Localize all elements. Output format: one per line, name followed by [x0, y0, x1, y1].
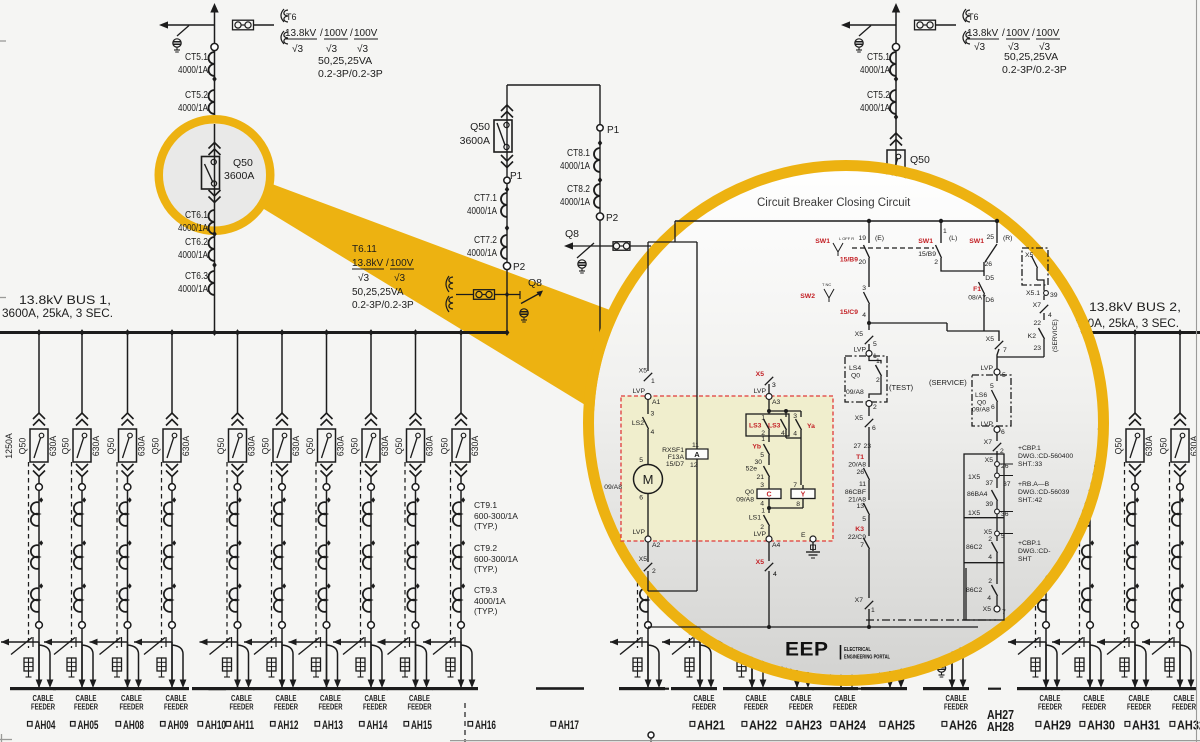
svg-text:50,25,25VA: 50,25,25VA [1004, 51, 1058, 63]
svg-text:C: C [766, 492, 771, 499]
svg-text:(TEST): (TEST) [889, 383, 914, 392]
svg-text:A3: A3 [772, 399, 781, 406]
current transformer CT7.2 [501, 235, 507, 259]
current transformer cluster 1 [39, 497, 43, 503]
junction [598, 177, 602, 183]
earthing switch [134, 641, 172, 643]
svg-text:FEEDER: FEEDER [120, 703, 144, 712]
svg-text:AH30: AH30 [1087, 719, 1115, 733]
current transformer cluster 2 [1135, 540, 1139, 546]
negative rail wire [648, 626, 978, 628]
withdrawable contact arrows (upper) [410, 413, 422, 419]
bus junction [505, 329, 510, 336]
svg-text:FEEDER: FEEDER [31, 703, 55, 712]
withdrawable contact arrows (lower) [455, 464, 467, 470]
withdrawable contact arrows (lower) [76, 464, 88, 470]
junction [995, 219, 999, 223]
isolating contact [36, 622, 43, 629]
current transformer CT8.2 [594, 184, 600, 208]
cable conductor 2 [890, 645, 901, 680]
svg-text:SHT: SHT [1018, 556, 1032, 563]
cable conductor 1 [1179, 642, 1181, 680]
contact LS3 (second) [785, 411, 787, 417]
svg-text:/: / [1002, 28, 1005, 39]
fuse link T6.11 [474, 290, 495, 300]
current transformer cluster 2 [128, 540, 132, 546]
svg-text:L OFF R: L OFF R [839, 236, 854, 241]
svg-text:630A: 630A [137, 436, 147, 457]
cable conductor 2 [952, 645, 963, 680]
isolating contact [749, 484, 756, 491]
feeder wire [699, 477, 701, 688]
circuit breaker Q50 AH04 [30, 429, 48, 462]
earthing switch [1142, 641, 1180, 643]
sheet border right [1196, 0, 1198, 742]
isolating contact [279, 622, 286, 629]
cable termination bar [619, 687, 665, 690]
cable conductor 1 [81, 642, 83, 680]
svg-text:P1: P1 [510, 171, 523, 182]
earthing switch [90, 641, 128, 643]
disconnector with earthing (left incomer) [168, 24, 215, 26]
circuit breaker Q50 AH13 [318, 429, 336, 462]
ground reference mark [648, 732, 654, 738]
truck position dashed wire [226, 462, 228, 648]
svg-text:D5: D5 [985, 275, 994, 282]
svg-text:CT5.2: CT5.2 [867, 89, 890, 101]
truck position dashed wire [830, 462, 832, 648]
svg-text:23: 23 [1033, 345, 1041, 352]
feeder AH12 [280, 329, 285, 336]
current transformer cluster 2 [890, 540, 894, 546]
current transformer cluster 2 [371, 540, 375, 546]
svg-text:13.8kV: 13.8kV [352, 258, 383, 269]
magnifier beam wedge [259, 184, 650, 425]
earthing switch [852, 641, 890, 643]
current transformer cluster 1 [1090, 497, 1094, 503]
circuit breaker Q50 AH25 [881, 429, 899, 462]
current transformer cluster 1 [841, 497, 845, 503]
feeder AH32 [1178, 329, 1183, 336]
cable conductor 2 [238, 645, 249, 680]
interlock branch X5.1/K2 [1022, 248, 1048, 285]
feeder column [647, 400, 649, 414]
svg-text:86C2: 86C2 [966, 587, 982, 594]
feeder name AH21 [690, 722, 695, 727]
anti-pump wire to Ya branch [769, 410, 801, 412]
svg-text:AH11: AH11 [233, 718, 254, 732]
svg-text:5: 5 [990, 383, 994, 390]
svg-text:X7: X7 [855, 597, 864, 604]
feeder name AH24 [831, 722, 836, 727]
junction [505, 186, 509, 192]
svg-text:4: 4 [1048, 312, 1052, 319]
truck position dashed wire [315, 462, 317, 648]
feeder wire [38, 477, 40, 688]
junction [894, 76, 898, 82]
isolating contact [838, 622, 845, 629]
cable conductor 1 [38, 642, 40, 680]
svg-text:37: 37 [985, 480, 993, 487]
svg-text:7: 7 [860, 542, 864, 549]
surge arrester [356, 658, 365, 671]
feeder wire [1179, 477, 1181, 688]
svg-text:Q50: Q50 [910, 154, 930, 166]
withdrawable contact arrows (lower) [791, 464, 803, 470]
current transformer CT5.1 [890, 52, 896, 76]
isolating contact [412, 622, 419, 629]
svg-text:630A: 630A [380, 436, 390, 457]
withdrawable contact arrows (upper) [884, 413, 896, 419]
circuit breaker Q50 AH15 [407, 429, 425, 462]
truck position dashed wire [360, 462, 362, 648]
feeder AH11 [235, 329, 240, 336]
svg-text:Q0: Q0 [745, 489, 754, 496]
svg-text:Q50: Q50 [1114, 438, 1124, 455]
truck position dashed wire [161, 462, 163, 648]
junction [212, 76, 216, 82]
svg-text:8: 8 [796, 501, 800, 508]
isolating contact [1043, 622, 1050, 629]
cable conductor 1 [326, 642, 328, 680]
fuse link (left incomer) [233, 20, 254, 30]
incoming feeder arrow (right) [892, 3, 900, 13]
isolating contact [1177, 484, 1184, 491]
svg-text:X5: X5 [756, 371, 765, 378]
circuit breaker Q50 AH22 [743, 429, 761, 462]
svg-text:CT5.1: CT5.1 [867, 51, 890, 63]
svg-text:P2: P2 [606, 213, 619, 224]
surge arrester [1120, 658, 1129, 671]
svg-text:AH25: AH25 [887, 719, 915, 733]
bar joint dashes [858, 688, 869, 690]
svg-text:1: 1 [876, 358, 880, 365]
svg-text:FEEDER: FEEDER [944, 703, 968, 712]
svg-text:+CBP.1: +CBP.1 [1018, 540, 1041, 547]
auxiliary contact box LS3/LS3 [746, 414, 789, 436]
svg-text:AH04: AH04 [35, 718, 56, 732]
earthing switch [714, 641, 752, 643]
feeder wire [951, 477, 953, 688]
svg-text:630A: 630A [91, 436, 101, 457]
cable conductor 2 [1046, 645, 1057, 680]
cable conductor 1 [699, 642, 701, 680]
isolating contact [79, 622, 86, 629]
wire K2 to LVP5 [997, 356, 1044, 358]
svg-text:12: 12 [690, 462, 698, 469]
current transformer cluster 2 [238, 540, 242, 546]
svg-text:AH26: AH26 [949, 719, 977, 733]
truck position dashed wire [689, 462, 691, 648]
feeder AH24 [840, 400, 842, 414]
junction [598, 140, 602, 146]
svg-text:SHT.:33: SHT.:33 [1018, 461, 1042, 468]
feeder AH29 [1045, 400, 1047, 414]
feeder AH08 [125, 329, 130, 336]
svg-text:AH16: AH16 [475, 718, 496, 732]
svg-text:X5: X5 [756, 559, 765, 566]
svg-text:19: 19 [858, 235, 866, 242]
connector pin X5:6 [868, 407, 870, 417]
withdrawable contact arrows (lower) [166, 464, 178, 470]
svg-text:FEEDER: FEEDER [363, 703, 387, 712]
svg-text:CT5.1: CT5.1 [185, 51, 208, 63]
current transformer cluster 3 [841, 583, 845, 589]
svg-text:1: 1 [761, 508, 765, 515]
cable termination bar [53, 687, 99, 690]
current transformer cluster 2 [952, 540, 956, 546]
current transformer cluster 2 [648, 540, 652, 546]
current transformer cluster 3 [700, 583, 704, 589]
svg-text:100V: 100V [324, 28, 348, 39]
junction [939, 219, 943, 223]
svg-text:FEEDER: FEEDER [1082, 703, 1106, 712]
wire stubs to annotations [999, 463, 1013, 465]
withdrawable contact arrows (upper) [746, 413, 758, 419]
withdrawable contact arrows (upper) [232, 413, 244, 419]
isolating contact [36, 484, 43, 491]
current transformer CT6.2 [208, 237, 214, 261]
svg-text:15/B9: 15/B9 [918, 251, 936, 258]
feeder wire [326, 477, 328, 688]
svg-text:(L): (L) [949, 235, 957, 242]
svg-text:26: 26 [856, 469, 864, 476]
current transformer cluster 3 [890, 583, 894, 589]
cable termination bar [387, 687, 433, 690]
svg-text:37: 37 [1003, 481, 1011, 488]
current transformer cluster 1 [82, 497, 86, 503]
truck position dashed wire [741, 462, 743, 648]
voltage transformer T6 (right) [963, 9, 966, 22]
withdrawable contact arrows (upper) [166, 413, 178, 419]
surge arrester [24, 658, 33, 671]
feeder AH25 [889, 400, 891, 414]
isolating contact [412, 484, 419, 491]
feeder column [459, 329, 464, 336]
current transformer cluster 2 [82, 540, 86, 546]
surge arrester [1031, 658, 1040, 671]
svg-text:√3: √3 [292, 43, 303, 55]
svg-text:7: 7 [1002, 609, 1006, 616]
svg-text:X5: X5 [984, 529, 993, 536]
magnifier small circle ring [159, 119, 271, 231]
svg-text:3: 3 [651, 411, 655, 418]
svg-text:RXSF1: RXSF1 [662, 447, 684, 454]
current transformer cluster 1 [172, 497, 176, 503]
svg-text:AH31: AH31 [1132, 719, 1160, 733]
cable conductor 1 [889, 642, 891, 680]
cable conductor 1 [460, 642, 462, 680]
svg-text:CT8.1: CT8.1 [567, 147, 590, 159]
svg-text:Q50: Q50 [394, 438, 404, 455]
svg-text:4000/1A: 4000/1A [560, 196, 590, 208]
withdrawable contact arrows (upper) [33, 413, 45, 419]
cable conductor 1 [647, 642, 649, 680]
svg-text:52e: 52e [746, 466, 758, 473]
cable conductor 1 [281, 642, 283, 680]
svg-text:AH12: AH12 [278, 718, 299, 732]
svg-text:600-300/1A: 600-300/1A [474, 511, 518, 521]
svg-text:15/C9: 15/C9 [840, 309, 858, 316]
svg-text:FEEDER: FEEDER [789, 703, 813, 712]
svg-text:F1: F1 [973, 286, 981, 293]
svg-text:+CBP.1: +CBP.1 [1018, 445, 1041, 452]
svg-text:AH28: AH28 [987, 720, 1014, 734]
svg-text:13: 13 [856, 503, 864, 510]
svg-text:4: 4 [651, 429, 655, 436]
svg-text:DWG.:CD-560400: DWG.:CD-560400 [1018, 453, 1073, 460]
truck position dashed wire [786, 462, 788, 648]
surge arrester [1165, 658, 1174, 671]
svg-text:AH10: AH10 [205, 718, 226, 732]
circuit breaker Q50 AH09 [163, 429, 181, 462]
withdrawable contact arrows (upper) [835, 413, 847, 419]
earthing switch [333, 641, 371, 643]
current transformer cluster 3 [39, 583, 43, 589]
current transformer CT8.1 [594, 148, 600, 172]
cable conductor 1 [171, 642, 173, 680]
contact Yb [768, 430, 770, 442]
svg-text:AH22: AH22 [749, 719, 777, 733]
truck position dashed wire [404, 462, 406, 648]
svg-text:AH08: AH08 [123, 718, 144, 732]
svg-text:(SERVICE): (SERVICE) [929, 378, 967, 387]
svg-text:AH24: AH24 [838, 719, 866, 733]
feeder name AH22 [742, 722, 747, 727]
withdrawable contact arrows (upper) [642, 413, 654, 419]
current transformer cluster 1 [952, 497, 956, 503]
cable termination bar [923, 687, 969, 690]
circuit breaker Q50 AH30 [1081, 429, 1099, 462]
truck position dashed wire [71, 462, 73, 648]
svg-text:K3: K3 [855, 526, 864, 533]
svg-text:√3: √3 [974, 41, 985, 53]
voltage transformer T6 (left) [281, 9, 284, 22]
cable conductor 2 [371, 645, 382, 680]
svg-text:T NC: T NC [822, 282, 831, 287]
svg-text:LS1: LS1 [749, 515, 761, 522]
svg-text:6: 6 [872, 425, 876, 432]
cable conductor 2 [841, 645, 852, 680]
current transformer cluster 2 [172, 540, 176, 546]
current transformer cluster 3 [82, 583, 86, 589]
cable termination bar [298, 687, 344, 690]
cable conductor 1 [1134, 642, 1136, 680]
svg-text:X5: X5 [985, 457, 994, 464]
cable termination bar [1017, 687, 1063, 690]
cable conductor 2 [282, 645, 293, 680]
withdrawable contact arrows (upper) [1129, 413, 1141, 419]
spare bar AH10 [192, 687, 226, 690]
svg-text:LVP: LVP [633, 529, 646, 536]
circuit breaker Q50 3600A (left incomer) [202, 157, 220, 190]
circuit breaker Q50 AH31 [1126, 429, 1144, 462]
wire VT to coupler [456, 294, 473, 296]
isolating contact [887, 484, 894, 491]
cable conductor 1 [127, 642, 129, 680]
feeder name AH08 [116, 722, 121, 727]
svg-text:Q50: Q50 [233, 157, 253, 169]
feeder wire [751, 477, 753, 688]
svg-text:AH15: AH15 [411, 718, 432, 732]
current transformer cluster 3 [648, 583, 652, 589]
current transformer cluster 2 [416, 540, 420, 546]
current transformer cluster 3 [238, 583, 242, 589]
surge arrester [401, 658, 410, 671]
svg-text:X5: X5 [639, 556, 648, 563]
withdrawable contact arrows (lower) [835, 464, 847, 470]
current transformer cluster 1 [416, 497, 420, 503]
svg-text:LS4: LS4 [849, 365, 861, 372]
feeder wire [171, 477, 173, 688]
current transformer cluster 3 [1135, 583, 1139, 589]
feeder AH15 [413, 329, 418, 336]
discrepancy dashed wire [852, 247, 934, 249]
isolating contact (left incomer) [211, 43, 218, 50]
svg-text:Q8: Q8 [528, 277, 542, 289]
isolating contact [887, 622, 894, 629]
svg-text:630A: 630A [336, 436, 346, 457]
circuit breaker Q50 3600A (bus coupler) [494, 120, 512, 152]
junction [212, 231, 216, 237]
test position box LS4/Q0 [845, 356, 887, 402]
current transformer cluster 1 [238, 497, 242, 503]
withdrawable arrows upper (coupler Q50) [501, 105, 513, 111]
current transformer cluster 1 [1046, 497, 1050, 503]
svg-text:09/A8: 09/A8 [736, 497, 754, 504]
withdrawable contact arrows (upper) [122, 413, 134, 419]
withdrawable arrows lower (coupler Q50) [501, 155, 513, 161]
svg-text:4: 4 [773, 571, 777, 578]
svg-text:7: 7 [1003, 347, 1007, 354]
feeder name AH26 [942, 722, 947, 727]
earthing switch [759, 641, 797, 643]
magnifier big circle ring [589, 166, 1104, 681]
junction [894, 114, 898, 120]
withdrawable contact arrows (lower) [1174, 464, 1186, 470]
svg-text:Q50: Q50 [470, 121, 490, 133]
svg-text:LVP: LVP [754, 388, 767, 395]
earthing switch [610, 641, 648, 643]
withdrawable contact arrows (upper) [694, 413, 706, 419]
anti-pumping zone box (red dashed) [621, 396, 833, 541]
svg-text:86BA4: 86BA4 [967, 491, 988, 498]
svg-text:Q50: Q50 [350, 438, 360, 455]
spare bar AH17 [536, 687, 584, 690]
cable conductor 2 [1180, 645, 1191, 680]
svg-text:1: 1 [651, 378, 655, 385]
svg-text:13.8kV BUS 1,: 13.8kV BUS 1, [19, 295, 111, 307]
svg-text:3600A: 3600A [460, 135, 490, 147]
svg-text:21: 21 [756, 474, 764, 481]
svg-text:P2: P2 [513, 262, 526, 273]
svg-text:T6: T6 [286, 12, 297, 22]
circuit breaker Q50 [452, 429, 470, 462]
svg-text:Q50: Q50 [18, 438, 28, 455]
svg-text:LVP: LVP [754, 531, 767, 538]
svg-text:AH14: AH14 [367, 718, 388, 732]
svg-text:630A: 630A [48, 436, 58, 457]
surge arrester [267, 658, 276, 671]
current transformer cluster 1 [752, 497, 756, 503]
feeder wire [1045, 477, 1047, 688]
withdrawable contact arrows (upper) [76, 413, 88, 419]
current transformer cluster 3 [1090, 583, 1094, 589]
svg-text:CT6.1: CT6.1 [185, 209, 208, 221]
svg-text:CT9.2: CT9.2 [474, 543, 497, 553]
svg-text:M: M [643, 472, 654, 487]
svg-text:09/A8: 09/A8 [846, 389, 864, 396]
